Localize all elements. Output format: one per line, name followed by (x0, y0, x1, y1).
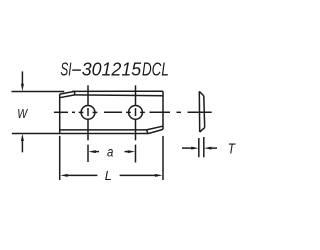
plate bottom-right chamfer end tick (147, 130, 149, 134)
plate bottom-right chamfer inner bevel line (147, 126, 163, 130)
hole left vertical centerline upper (87, 85, 89, 105)
horizontal centerline dash between holes (104, 111, 122, 113)
hole left circle (81, 106, 95, 120)
dimension L extension line left (59, 136, 61, 180)
arrowhead a left (points left) (88, 150, 95, 153)
plate bottom-right chamfer outer line (149, 129, 164, 133)
dimension L arrow shaft left (66, 174, 97, 176)
hole right crosshair tick east (140, 111, 145, 113)
hole right vertical centerline upper (135, 85, 137, 105)
side view left face (198, 91, 200, 132)
arrowhead T left (points right) (191, 147, 198, 150)
plate top edge outer (72, 90, 163, 92)
hole left center mark vertical bar (87, 108, 89, 116)
plate top-left chamfer inner bevel line (60, 95, 75, 98)
horizontal centerline dot right of plate (177, 111, 182, 113)
arrowhead L left (points left) (60, 174, 67, 177)
plate top-left chamfer outer line (60, 91, 75, 94)
dimension T extension line left (198, 138, 200, 157)
horizontal centerline dash through left edge (54, 111, 68, 113)
hole right vertical centerline lower (135, 120, 137, 141)
side view right face (203, 96, 206, 128)
dimension T extension line right (203, 137, 205, 157)
dimension W top arrow shaft (21, 71, 23, 84)
dimension a extension line left (87, 145, 89, 162)
svg-text:W: W (17, 106, 28, 121)
svg-text:301215: 301215 (82, 58, 142, 79)
hole left vertical centerline lower (87, 120, 89, 141)
plate top-left chamfer end tick (74, 91, 76, 95)
plate top bevel inner line (75, 94, 163, 97)
arrowhead a right (points right) (128, 150, 135, 153)
dimension a extension line right (135, 145, 137, 163)
svg-text:SI: SI (60, 58, 71, 79)
side view bottom bevel (200, 128, 205, 132)
dimension a arrow shaft right (125, 151, 130, 153)
title dash (72, 69, 81, 71)
arrowhead W bottom (points up) (21, 134, 24, 141)
horizontal centerline dash through right edge (150, 111, 171, 113)
plate bottom bevel inner line (60, 129, 147, 131)
dimension T arrow shaft left (182, 147, 193, 149)
dimension T arrow shaft right (210, 147, 217, 149)
dimension a arrow shaft left (94, 151, 99, 153)
svg-text:L: L (105, 169, 112, 183)
dimension L arrow shaft right (120, 174, 157, 176)
hole right circle (129, 106, 143, 120)
plate bottom edge outer (60, 133, 149, 135)
hole left crosshair tick east (93, 111, 98, 113)
dimension W bottom arrow shaft (21, 140, 23, 152)
horizontal centerline dash through side view (188, 111, 212, 113)
svg-text:a: a (107, 144, 114, 159)
dimension L extension line right (162, 136, 164, 180)
side view top bevel (199, 91, 204, 96)
horizontal centerline dot left (72, 111, 75, 113)
arrowhead W top (points down) (21, 84, 24, 91)
svg-text:T: T (228, 141, 237, 158)
svg-text:DCL: DCL (142, 58, 169, 79)
plate left edge (59, 94, 61, 134)
dimension W top extension line (12, 91, 65, 93)
dimension W bottom extension line (12, 133, 60, 135)
hole right crosshair tick west (126, 111, 131, 113)
arrowhead T right (points left) (204, 147, 211, 150)
arrowhead L right (points right) (155, 174, 162, 177)
hole right center mark vertical bar (135, 108, 137, 116)
plate right edge (162, 91, 164, 129)
hole left crosshair tick west (79, 111, 84, 113)
